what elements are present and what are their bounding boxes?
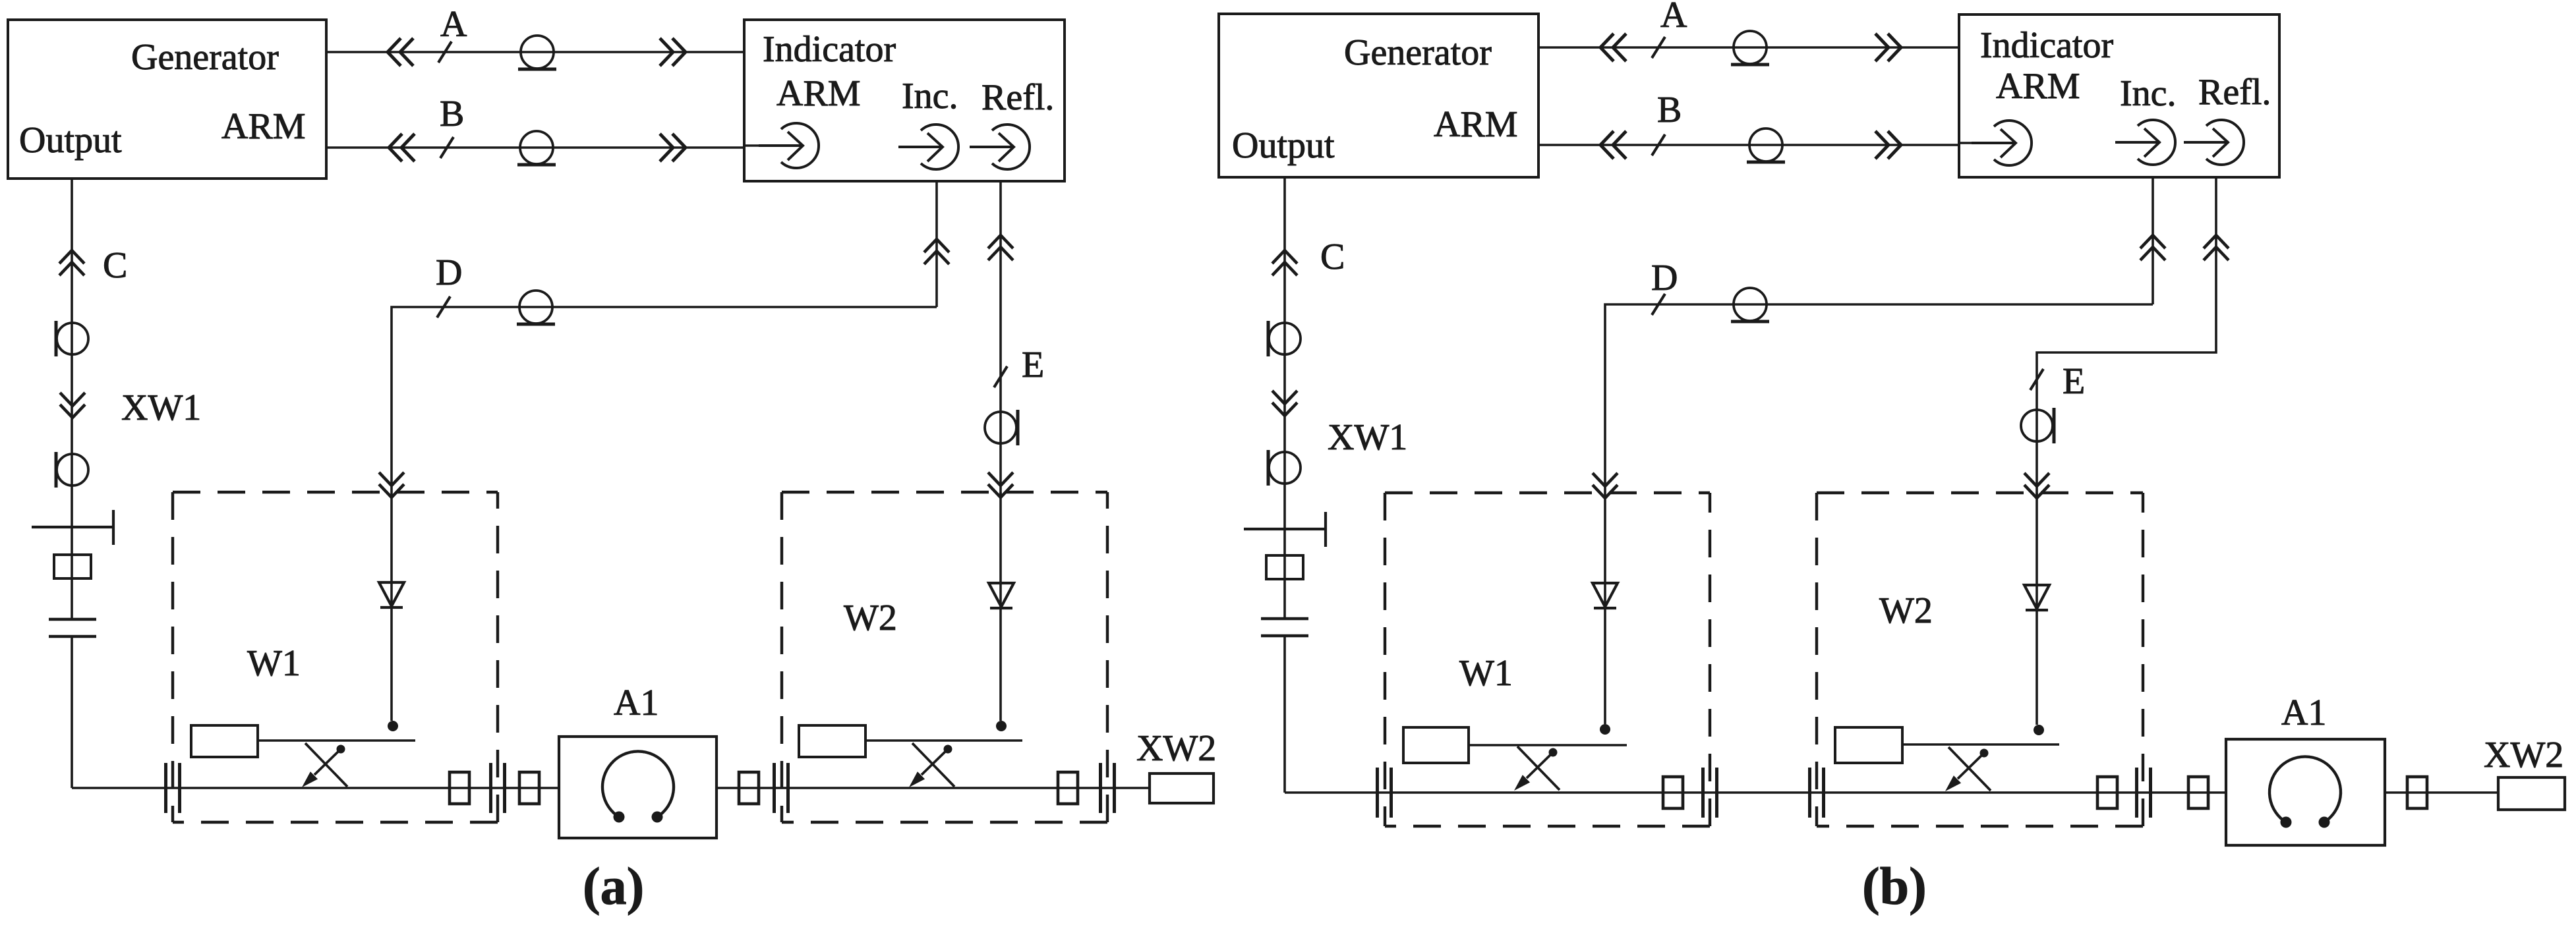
chevrons left on cable B (a) bbox=[389, 134, 415, 161]
W2 probe meter box (b) bbox=[1835, 727, 1902, 763]
W2 probe junction dot (b) bbox=[2034, 725, 2044, 735]
rotary joint on cable E (a) bbox=[985, 410, 1018, 445]
Refl. input connector (b) bbox=[2184, 120, 2244, 165]
flange at W2 left edge (a) bbox=[775, 763, 788, 813]
W1 detector wire (b) bbox=[1604, 493, 1606, 724]
cable B wire (a) bbox=[326, 146, 744, 149]
flange at W1 right edge (a) bbox=[491, 763, 505, 813]
section square inside W1 (a) bbox=[450, 772, 469, 804]
chevrons down on output wire (b) bbox=[1272, 391, 1297, 416]
chevrons down into W2 (b) bbox=[2024, 473, 2049, 498]
slash tick A (a) bbox=[438, 42, 452, 63]
Refl. input connector (a) bbox=[970, 125, 1030, 169]
svg-text:C: C bbox=[103, 245, 127, 286]
svg-text:(a): (a) bbox=[583, 858, 644, 916]
svg-text:Output: Output bbox=[19, 120, 122, 161]
chevrons right on cable A (a) bbox=[660, 38, 686, 66]
section square on output line (b) bbox=[1266, 555, 1303, 579]
ARM connector stub (a) bbox=[744, 144, 761, 147]
W1 detector diode (a) bbox=[379, 582, 404, 607]
flange at W1 left edge (a) bbox=[166, 763, 180, 813]
termination XW2 box (a) bbox=[1150, 773, 1214, 803]
W1 detector wire (a) bbox=[390, 492, 393, 721]
svg-text:E: E bbox=[2063, 361, 2085, 402]
chevrons down into W1 (a) bbox=[379, 472, 404, 497]
W1 probe meter box (a) bbox=[191, 725, 258, 757]
slash tick D (a) bbox=[437, 296, 450, 318]
svg-text:C: C bbox=[1320, 237, 1345, 277]
svg-text:ARM: ARM bbox=[1996, 66, 2080, 107]
cable D wire (a) bbox=[392, 307, 937, 492]
chevrons left on cable B (b) bbox=[1600, 131, 1626, 159]
Inc. wire down (b) bbox=[2152, 177, 2154, 304]
svg-text:Output: Output bbox=[1232, 125, 1335, 166]
svg-text:ARM: ARM bbox=[776, 73, 861, 114]
svg-text:W2: W2 bbox=[1879, 590, 1933, 631]
rotary joint on cable A (a) bbox=[518, 36, 556, 69]
slash tick A (b) bbox=[1652, 37, 1665, 58]
Inc. input connector (b) bbox=[2115, 120, 2175, 165]
svg-text:ARM: ARM bbox=[221, 106, 306, 147]
cable D wire (b) bbox=[1605, 304, 2153, 493]
blocking capacitor (b) bbox=[1261, 619, 1308, 636]
section square before W2 (a) bbox=[739, 772, 759, 804]
generator output wire (b) bbox=[1283, 177, 1286, 793]
cable A wire (b) bbox=[1538, 46, 1959, 49]
svg-text:A: A bbox=[440, 4, 467, 45]
chevrons left on cable A (a) bbox=[388, 38, 413, 66]
W1 probe junction dot (a) bbox=[388, 721, 398, 731]
Refl. wire down (b) bbox=[2037, 177, 2216, 498]
svg-text:Refl.: Refl. bbox=[2198, 72, 2271, 113]
W1 moving probe cross arrows (a) bbox=[302, 743, 347, 787]
coax joint XW1 lower (a) bbox=[56, 452, 88, 488]
svg-text:A1: A1 bbox=[2281, 692, 2326, 733]
chevrons down into W1 (b) bbox=[1593, 473, 1618, 498]
Generator box (a) bbox=[8, 20, 326, 179]
rotary joint on cable E (b) bbox=[2021, 408, 2054, 443]
W2 detector diode (a) bbox=[989, 583, 1014, 608]
svg-text:Indicator: Indicator bbox=[763, 29, 896, 70]
Inc. input connector (a) bbox=[898, 125, 958, 169]
section square inside W2 (b) bbox=[2097, 777, 2117, 808]
W1 detector diode (b) bbox=[1593, 583, 1618, 608]
W1 dashed box (b) bbox=[1385, 493, 1710, 826]
W2 detector wire (a) bbox=[999, 492, 1002, 721]
chevrons up on output wire (a) bbox=[59, 250, 84, 275]
ARM input connector (b) bbox=[1972, 121, 2032, 165]
svg-text:(b): (b) bbox=[1862, 858, 1927, 916]
main line bus left of A1 (b) bbox=[1285, 791, 2226, 794]
main line bus left of A1 (a) bbox=[72, 787, 559, 789]
chevrons right on cable B (b) bbox=[1875, 131, 1901, 159]
svg-text:D: D bbox=[1651, 258, 1678, 298]
Inc. wire down (a) bbox=[935, 181, 938, 307]
Indicator box (a) bbox=[744, 20, 1065, 181]
chevrons down into W2 (a) bbox=[988, 472, 1013, 497]
svg-text:Indicator: Indicator bbox=[1980, 25, 2113, 66]
chevrons down on output wire (a) bbox=[60, 393, 85, 418]
rotary joint on cable D (b) bbox=[1731, 288, 1769, 322]
section square after W1 (a) bbox=[519, 772, 539, 804]
chevrons up on Inc. wire (b) bbox=[2140, 235, 2165, 260]
rotary joint on cable B (b) bbox=[1747, 128, 1785, 162]
W2 moving probe cross arrows (a) bbox=[909, 743, 954, 787]
svg-text:A1: A1 bbox=[614, 683, 659, 723]
svg-text:Inc.: Inc. bbox=[2120, 73, 2177, 114]
W2 probe rail (a) bbox=[865, 739, 1022, 742]
flange at W1 right edge (b) bbox=[1703, 768, 1717, 818]
svg-text:W1: W1 bbox=[1459, 653, 1513, 694]
ARM input connector (a) bbox=[759, 123, 819, 168]
svg-text:D: D bbox=[436, 252, 462, 293]
tuner stub (a) bbox=[32, 510, 113, 545]
section square inside W2 (a) bbox=[1058, 772, 1078, 804]
W2 probe junction dot (a) bbox=[996, 721, 1007, 731]
W1 dashed box (a) bbox=[173, 492, 498, 822]
chevrons right on cable A (b) bbox=[1875, 34, 1901, 61]
svg-text:XW2: XW2 bbox=[1136, 728, 1216, 769]
W1 probe rail (a) bbox=[258, 739, 415, 742]
svg-text:W2: W2 bbox=[844, 598, 897, 638]
svg-text:XW2: XW2 bbox=[2484, 735, 2563, 775]
slash tick B (a) bbox=[440, 137, 454, 158]
W1 probe meter box (b) bbox=[1403, 727, 1469, 763]
flange at W2 left edge (b) bbox=[1810, 768, 1824, 818]
termination XW2 box (b) bbox=[2498, 777, 2565, 810]
flange at W1 left edge (b) bbox=[1378, 768, 1391, 818]
slash tick D (b) bbox=[1652, 294, 1665, 315]
coax joint XW1 upper (a) bbox=[56, 321, 88, 356]
svg-text:Inc.: Inc. bbox=[902, 76, 958, 117]
ARM connector stub (b) bbox=[1959, 142, 1974, 144]
svg-text:Refl.: Refl. bbox=[981, 77, 1054, 118]
main line bus right of A1 (a) bbox=[717, 787, 1150, 789]
Generator box (b) bbox=[1219, 14, 1538, 177]
chevrons right on cable B (a) bbox=[660, 134, 686, 161]
main line bus right of A1 (b) bbox=[2385, 791, 2498, 794]
svg-text:E: E bbox=[1022, 345, 1044, 385]
svg-text:A: A bbox=[1660, 0, 1687, 36]
svg-text:Generator: Generator bbox=[131, 37, 279, 78]
chevrons up on Refl. wire (a) bbox=[988, 235, 1013, 260]
coax joint XW1 lower (b) bbox=[1268, 450, 1301, 486]
svg-text:B: B bbox=[440, 94, 464, 134]
A1 horseshoe symbol (a) bbox=[602, 751, 674, 822]
cable B wire (b) bbox=[1538, 144, 1959, 146]
W2 probe meter box (a) bbox=[799, 725, 865, 757]
svg-text:ARM: ARM bbox=[1434, 104, 1518, 145]
chevrons up on Refl. wire (b) bbox=[2204, 235, 2229, 260]
section square after W2 (b) bbox=[2188, 777, 2208, 808]
section square on output line (a) bbox=[54, 555, 91, 578]
A1 horseshoe symbol (b) bbox=[2269, 756, 2341, 827]
slash tick B (b) bbox=[1652, 134, 1665, 155]
chevrons up on Inc. wire (a) bbox=[924, 239, 949, 264]
Refl. / cable E wire (a) bbox=[999, 181, 1002, 498]
W2 moving probe cross arrows (b) bbox=[1945, 747, 1991, 791]
chevrons up on output wire (b) bbox=[1272, 250, 1297, 275]
slash tick E (b) bbox=[2030, 369, 2043, 390]
rotary joint on cable A (b) bbox=[1731, 31, 1769, 65]
rotary joint on cable B (a) bbox=[517, 131, 556, 165]
W1 moving probe cross arrows (b) bbox=[1514, 746, 1560, 791]
svg-text:Generator: Generator bbox=[1344, 32, 1492, 73]
chevrons left on cable A (b) bbox=[1600, 34, 1626, 61]
coax joint XW1 upper (b) bbox=[1268, 321, 1301, 356]
svg-text:XW1: XW1 bbox=[1328, 417, 1407, 458]
cable A wire (a) bbox=[326, 51, 744, 53]
W2 dashed box (a) bbox=[782, 492, 1107, 822]
generator output wire (a) bbox=[71, 179, 73, 788]
tuner stub (b) bbox=[1244, 512, 1326, 547]
W2 detector wire (b) bbox=[2035, 493, 2038, 725]
blocking capacitor (a) bbox=[49, 619, 96, 636]
section square inside W1 (b) bbox=[1663, 777, 1683, 808]
W2 probe rail (b) bbox=[1902, 743, 2059, 746]
flange at W2 right edge (b) bbox=[2137, 768, 2151, 818]
Indicator box (b) bbox=[1959, 14, 2279, 177]
rotary joint on cable D (a) bbox=[517, 291, 555, 324]
attenuator A1 box (a) bbox=[559, 737, 717, 838]
svg-text:XW1: XW1 bbox=[121, 387, 201, 428]
section square after A1 (b) bbox=[2407, 777, 2427, 808]
W1 probe rail (b) bbox=[1469, 744, 1627, 746]
W2 dashed box (b) bbox=[1817, 493, 2143, 826]
slash tick E (a) bbox=[994, 366, 1007, 387]
attenuator A1 box (b) bbox=[2226, 739, 2385, 845]
svg-text:B: B bbox=[1657, 90, 1682, 130]
flange at W2 right edge (a) bbox=[1101, 763, 1115, 813]
W1 probe junction dot (b) bbox=[1600, 724, 1610, 735]
svg-text:W1: W1 bbox=[247, 643, 301, 684]
W2 detector diode (b) bbox=[2024, 585, 2049, 610]
